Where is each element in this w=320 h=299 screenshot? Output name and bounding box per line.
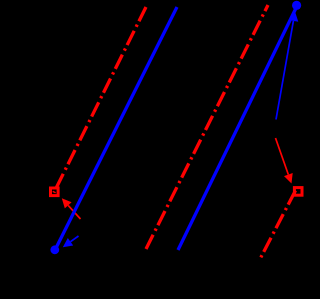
red open square marker (left) [51,188,59,196]
blue annotation arrow (right, pointing up at circle) [276,12,298,120]
red annotation arrow (left, pointing at square) [62,198,81,219]
left blue trajectory line [55,7,177,250]
red open square marker (right) [294,188,302,196]
right short red dash-dot line through square [260,191,296,260]
left red dash-dot trajectory line (ends in dot at square centre) [54,7,146,193]
right long red dash-dot trajectory line [146,5,268,249]
blue annotation arrow (left, pointing at circle) [63,236,79,247]
right blue trajectory line [178,6,297,250]
blue circle marker (right, top of line) [292,1,301,10]
red annotation arrow (right, pointing down at square) [276,138,293,184]
blue circle marker (left, bottom of line) [50,245,59,254]
